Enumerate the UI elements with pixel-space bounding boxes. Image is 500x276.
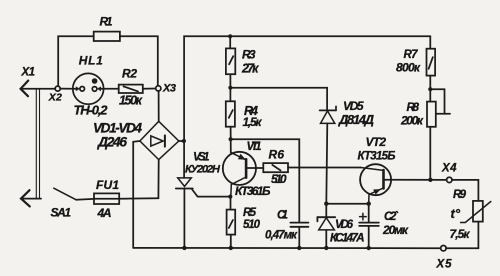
wire fuse to bridge bottom bbox=[119, 197, 158, 200]
switch SA1 bbox=[54, 188, 76, 200]
wire X5 to R9 bottom bbox=[446, 247, 478, 249]
wire R6 to VT2 base bbox=[288, 167, 361, 169]
junction R5 / bottom rail bbox=[229, 246, 233, 250]
wire R3 to R4 bbox=[229, 74, 231, 101]
junction C2 / VT2 emitter bbox=[367, 202, 371, 206]
wire R2 to X3 bbox=[143, 88, 156, 90]
svg-text:R8: R8 bbox=[407, 102, 420, 114]
svg-text:X5: X5 bbox=[436, 259, 453, 271]
svg-text:R1: R1 bbox=[100, 15, 113, 29]
svg-text:X3: X3 bbox=[162, 83, 176, 95]
wire VD6 node to C2 node bbox=[326, 203, 368, 205]
junction R4 / C1 line / VT1 emitter bbox=[229, 137, 233, 141]
wire bridge right vertex to bus bbox=[179, 140, 184, 142]
thermistor R9 bbox=[461, 201, 491, 248]
svg-text:200к: 200к bbox=[400, 114, 424, 128]
wire R1 to X3 drop bbox=[120, 36, 158, 86]
capacitor C2 bbox=[359, 204, 379, 248]
zener VD5 bbox=[320, 106, 336, 203]
wire X4 to R9 bbox=[452, 180, 478, 201]
resistor R6 bbox=[263, 163, 288, 172]
junction bridge + bus bbox=[182, 139, 186, 143]
junction bus / bottom rail bbox=[182, 246, 186, 250]
wire X2 up to top rail and to R1 bbox=[58, 36, 93, 86]
wire R8 wiper tap bbox=[430, 89, 450, 114]
node X3 terminal bbox=[156, 86, 161, 91]
svg-text:КТ315Б: КТ315Б bbox=[358, 151, 396, 163]
wire X2 to lamp bbox=[60, 88, 73, 90]
svg-text:R5: R5 bbox=[243, 207, 257, 219]
junction R7/R8 tap bbox=[428, 87, 432, 91]
wire double mains cord bbox=[36, 89, 39, 198]
svg-text:R6: R6 bbox=[269, 148, 285, 162]
svg-text:510: 510 bbox=[271, 172, 287, 186]
svg-text:VS1: VS1 bbox=[193, 152, 210, 164]
bridge rectifier VD1-VD4 bbox=[140, 121, 179, 159]
svg-text:VD6: VD6 bbox=[335, 219, 354, 231]
svg-text:КУ202Н: КУ202Н bbox=[185, 164, 221, 176]
svg-text:7,5к: 7,5к bbox=[450, 227, 471, 241]
wire R3/R4 node to VD5 bbox=[230, 88, 327, 111]
resistor R8 bbox=[427, 102, 436, 127]
node X2 terminal bbox=[55, 86, 60, 91]
svg-text:510: 510 bbox=[243, 219, 261, 231]
svg-text:VD5: VD5 bbox=[343, 99, 364, 113]
svg-text:VT1: VT1 bbox=[247, 141, 262, 153]
svg-text:0,47мк: 0,47мк bbox=[265, 230, 298, 242]
resistor R7 bbox=[427, 49, 436, 76]
svg-text:4A: 4A bbox=[97, 206, 112, 220]
junction R3/R4 node bbox=[228, 86, 232, 90]
svg-text:R3: R3 bbox=[242, 48, 256, 62]
resistor R3 bbox=[226, 48, 235, 74]
junction VD5/VD6 node bbox=[324, 202, 328, 206]
svg-text:800к: 800к bbox=[396, 61, 421, 75]
wire top rail to R3 bbox=[229, 36, 231, 48]
svg-text:SA1: SA1 bbox=[51, 206, 72, 220]
junction C1 / bottom rail bbox=[297, 246, 301, 250]
junction VD6 / bottom rail bbox=[324, 246, 328, 250]
svg-text:C2`: C2` bbox=[384, 211, 399, 223]
svg-text:КТ361Б: КТ361Б bbox=[235, 184, 271, 198]
lamp HL1 bbox=[73, 73, 104, 104]
node X4 terminal bbox=[447, 177, 452, 182]
capacitor C1 bbox=[290, 223, 308, 248]
resistor R5 bbox=[227, 197, 236, 248]
junction R8 column / X4 line bbox=[428, 178, 432, 182]
resistor R4 bbox=[226, 101, 235, 126]
transistor VT1 bbox=[223, 152, 264, 197]
wire R8 to X4 line bbox=[429, 127, 431, 180]
svg-text:X2: X2 bbox=[48, 92, 62, 104]
wire X3 down to bridge bbox=[158, 91, 160, 121]
svg-text:КС147А: КС147А bbox=[330, 232, 365, 244]
wire R7 to R8 bbox=[429, 76, 431, 102]
svg-text:X4: X4 bbox=[441, 163, 457, 175]
wire emitter node to C1 bbox=[231, 139, 300, 222]
wire lamp to R2 bbox=[104, 88, 119, 90]
svg-text:t°: t° bbox=[451, 206, 461, 221]
wire top rail corner down to R7 bbox=[429, 36, 431, 48]
zener VD6 bbox=[317, 204, 335, 248]
svg-text:27к: 27к bbox=[241, 62, 259, 76]
fuse FU1 bbox=[94, 193, 119, 204]
svg-text:Д814Д: Д814Д bbox=[338, 112, 375, 127]
junction VS1 gate / VT1 collector / R5 bbox=[228, 195, 232, 199]
transistor VT2 bbox=[360, 164, 391, 204]
wire bridge bottom vertex down bbox=[157, 160, 159, 199]
wire bridge left vertex down to bottom rail bbox=[133, 141, 140, 248]
node X1 plug arrow top bbox=[21, 81, 56, 97]
wire bottom rail bbox=[133, 247, 441, 249]
svg-text:R2: R2 bbox=[122, 67, 137, 81]
svg-text:20мк: 20мк bbox=[382, 223, 409, 237]
junction C2 / bottom rail bbox=[367, 246, 371, 250]
thyristor VS1 bbox=[176, 178, 231, 248]
resistor R1 bbox=[94, 32, 120, 41]
svg-text:HL1: HL1 bbox=[79, 54, 103, 68]
svg-text:R7: R7 bbox=[404, 49, 419, 61]
svg-text:C1: C1 bbox=[277, 210, 288, 222]
svg-text:1,5к: 1,5к bbox=[243, 115, 263, 129]
node X1 plug arrow bottom bbox=[21, 190, 41, 206]
wire R4 to VT1 emitter node bbox=[230, 127, 232, 153]
svg-text:R9: R9 bbox=[453, 189, 467, 201]
svg-text:ТН-0,2: ТН-0,2 bbox=[74, 103, 109, 118]
svg-text:VT2: VT2 bbox=[366, 135, 387, 149]
svg-text:FU1: FU1 bbox=[96, 178, 119, 192]
wire main bus top rail bbox=[184, 36, 430, 178]
svg-text:150к: 150к bbox=[119, 94, 143, 108]
resistor R2 bbox=[119, 85, 143, 93]
svg-text:X1: X1 bbox=[21, 67, 36, 79]
wire VT2 collector to X4 bbox=[391, 179, 447, 181]
svg-text:Д246: Д246 bbox=[97, 134, 127, 150]
wire switch to fuse bbox=[76, 198, 94, 201]
junction R3 top bbox=[228, 34, 232, 38]
node X5 terminal bbox=[441, 246, 446, 251]
